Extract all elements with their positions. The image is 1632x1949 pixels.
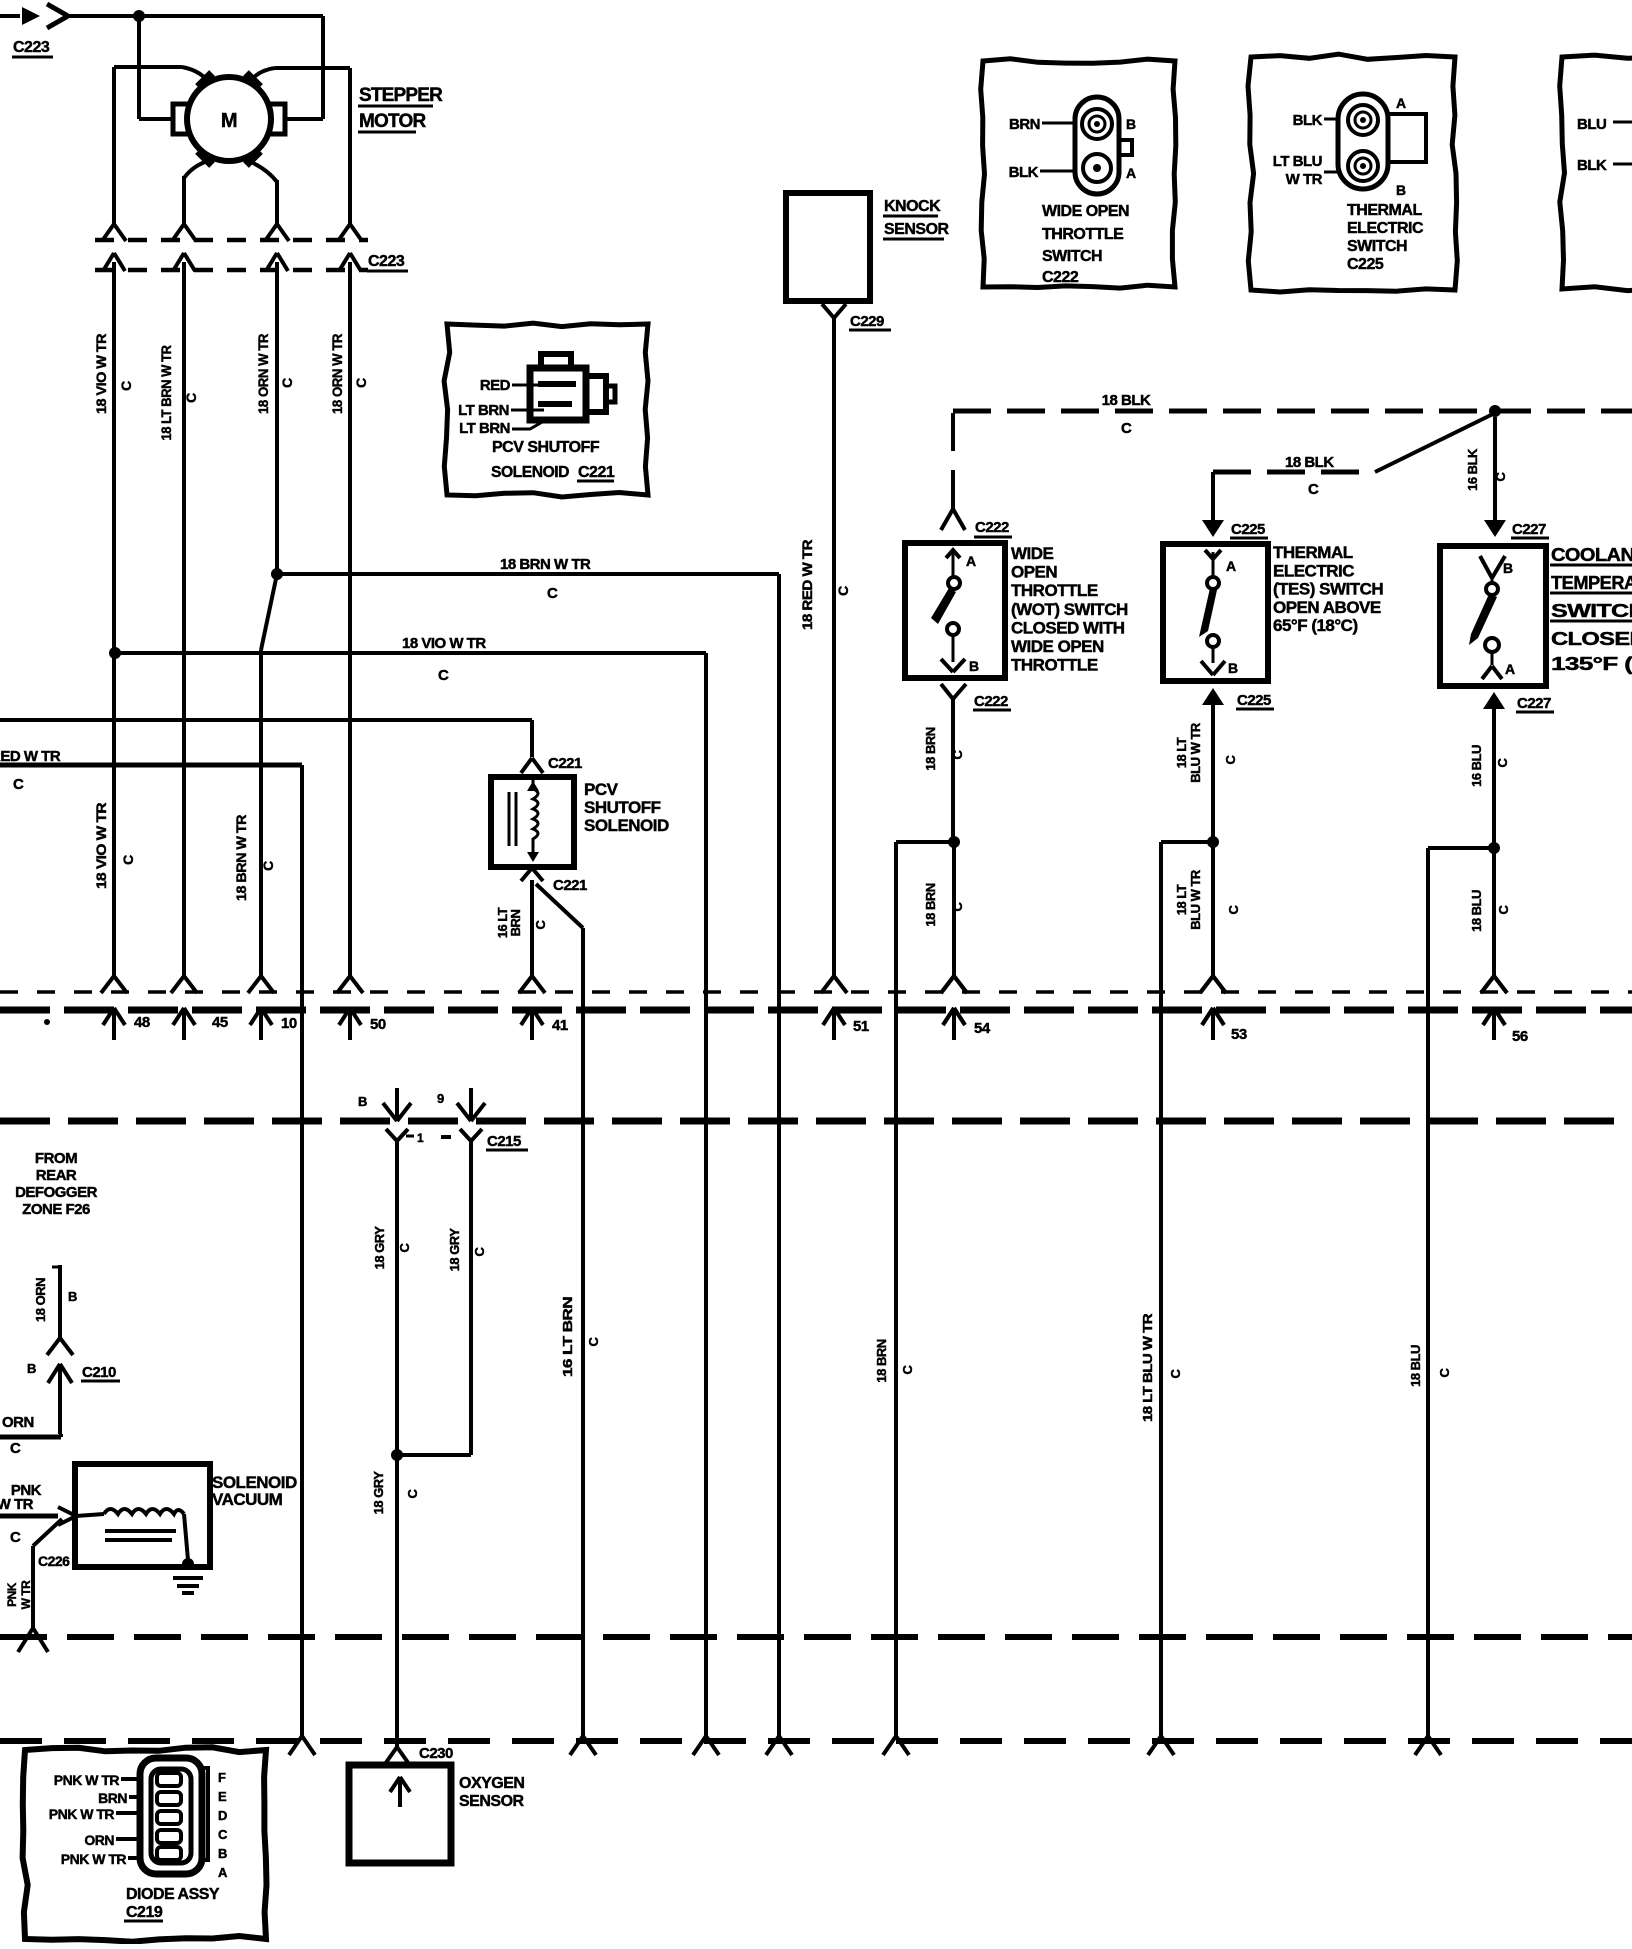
svg-text:CLOSED WITH: CLOSED WITH bbox=[1011, 618, 1125, 637]
svg-text:B: B bbox=[1396, 182, 1406, 198]
svg-text:C222: C222 bbox=[974, 693, 1008, 710]
svg-text:B: B bbox=[68, 1289, 77, 1304]
svg-text:C221: C221 bbox=[553, 877, 587, 894]
svg-text:STEPPER: STEPPER bbox=[359, 85, 443, 106]
svg-text:1: 1 bbox=[417, 1131, 424, 1145]
svg-text:A: A bbox=[1226, 558, 1236, 574]
svg-text:W TR: W TR bbox=[1286, 171, 1323, 188]
svg-text:C225: C225 bbox=[1347, 256, 1384, 273]
svg-text:16 BLU: 16 BLU bbox=[1469, 745, 1484, 787]
svg-text:THROTTLE: THROTTLE bbox=[1042, 226, 1124, 243]
svg-text:C: C bbox=[1226, 904, 1241, 914]
svg-text:SENSOR: SENSOR bbox=[884, 221, 950, 238]
svg-text:MOTOR: MOTOR bbox=[359, 111, 426, 132]
svg-text:C226: C226 bbox=[38, 1553, 70, 1569]
svg-text:BRN: BRN bbox=[1009, 116, 1040, 133]
svg-text:C: C bbox=[1496, 904, 1511, 914]
svg-text:PCV: PCV bbox=[584, 780, 619, 799]
svg-text:ZONE F26: ZONE F26 bbox=[22, 1201, 90, 1218]
svg-text:C: C bbox=[950, 749, 965, 759]
svg-text:LT BRN: LT BRN bbox=[459, 420, 510, 437]
svg-text:SENSOR: SENSOR bbox=[459, 1793, 525, 1810]
svg-text:RED W TR: RED W TR bbox=[0, 748, 61, 765]
svg-text:C: C bbox=[260, 861, 276, 871]
svg-text:18 ORN W TR: 18 ORN W TR bbox=[255, 334, 271, 414]
svg-text:BLK: BLK bbox=[1009, 164, 1039, 181]
svg-text:C: C bbox=[533, 919, 548, 929]
svg-text:50: 50 bbox=[370, 1016, 386, 1033]
svg-text:45: 45 bbox=[212, 1014, 228, 1031]
svg-text:C: C bbox=[13, 776, 24, 793]
svg-text:A: A bbox=[1396, 95, 1406, 111]
svg-text:BLU: BLU bbox=[1577, 116, 1606, 133]
svg-text:C: C bbox=[10, 1440, 21, 1457]
svg-text:C: C bbox=[183, 393, 199, 403]
svg-text:RED: RED bbox=[480, 377, 511, 394]
svg-text:C: C bbox=[1493, 471, 1508, 481]
svg-text:OPEN: OPEN bbox=[1011, 563, 1057, 582]
svg-text:B: B bbox=[969, 658, 979, 674]
svg-text:BLU W TR: BLU W TR bbox=[1188, 869, 1203, 930]
svg-text:16 BLK: 16 BLK bbox=[1465, 448, 1480, 491]
svg-text:C229: C229 bbox=[850, 313, 884, 330]
svg-text:10: 10 bbox=[281, 1015, 297, 1032]
svg-text:18 LT: 18 LT bbox=[1174, 884, 1189, 915]
svg-text:18 ORN: 18 ORN bbox=[33, 1278, 48, 1322]
svg-text:C: C bbox=[1168, 1368, 1183, 1378]
svg-text:B: B bbox=[27, 1361, 36, 1376]
svg-text:56: 56 bbox=[1512, 1028, 1528, 1045]
svg-text:18 BLU: 18 BLU bbox=[1469, 890, 1484, 932]
svg-text:18 BRN: 18 BRN bbox=[874, 1339, 889, 1382]
svg-text:DEFOGGER: DEFOGGER bbox=[15, 1184, 98, 1201]
svg-text:B: B bbox=[358, 1094, 367, 1109]
svg-text:C225: C225 bbox=[1231, 521, 1265, 538]
svg-text:W TR: W TR bbox=[0, 1496, 34, 1513]
svg-text:BLK: BLK bbox=[1293, 112, 1323, 129]
svg-text:18 BRN W TR: 18 BRN W TR bbox=[500, 556, 591, 573]
svg-text:A: A bbox=[1126, 165, 1136, 181]
svg-text:C: C bbox=[405, 1488, 420, 1498]
svg-text:51: 51 bbox=[853, 1018, 869, 1035]
svg-text:SHUTOFF: SHUTOFF bbox=[584, 798, 661, 817]
svg-text:SWITCH: SWITCH bbox=[1042, 248, 1102, 265]
svg-text:53: 53 bbox=[1231, 1026, 1247, 1043]
svg-text:THERMAL: THERMAL bbox=[1347, 202, 1422, 219]
svg-text:M: M bbox=[221, 110, 237, 132]
svg-text:BRN: BRN bbox=[508, 910, 523, 937]
svg-text:COOLANT: COOLANT bbox=[1551, 545, 1632, 565]
svg-text:C: C bbox=[438, 667, 449, 684]
svg-text:C230: C230 bbox=[419, 1745, 453, 1762]
svg-text:PCV SHUTOFF: PCV SHUTOFF bbox=[492, 439, 600, 456]
svg-text:E: E bbox=[218, 1789, 227, 1804]
svg-text:18 GRY: 18 GRY bbox=[371, 1471, 386, 1515]
svg-text:TEMPERAT: TEMPERAT bbox=[1551, 573, 1632, 593]
svg-text:(TES) SWITCH: (TES) SWITCH bbox=[1273, 580, 1383, 599]
svg-text:C: C bbox=[472, 1246, 487, 1256]
svg-text:16 LT BRN: 16 LT BRN bbox=[560, 1297, 575, 1377]
svg-text:C221: C221 bbox=[578, 464, 615, 481]
svg-text:C227: C227 bbox=[1512, 521, 1546, 538]
svg-text:A: A bbox=[218, 1865, 228, 1880]
svg-text:SWITCH: SWITCH bbox=[1347, 238, 1407, 255]
svg-text:18 GRY: 18 GRY bbox=[447, 1228, 462, 1272]
svg-text:18 BRN W TR: 18 BRN W TR bbox=[233, 815, 249, 901]
svg-text:C: C bbox=[397, 1242, 412, 1252]
svg-text:C: C bbox=[120, 855, 136, 865]
svg-text:W TR: W TR bbox=[19, 1580, 33, 1609]
svg-text:CLOSED: CLOSED bbox=[1551, 629, 1632, 649]
svg-text:65°F (18°C): 65°F (18°C) bbox=[1273, 616, 1358, 635]
svg-text:WIDE OPEN: WIDE OPEN bbox=[1011, 637, 1104, 656]
svg-text:C: C bbox=[1121, 420, 1132, 437]
svg-text:C: C bbox=[900, 1364, 915, 1374]
svg-text:THROTTLE: THROTTLE bbox=[1011, 581, 1098, 600]
svg-text:18 ORN W TR: 18 ORN W TR bbox=[329, 334, 345, 414]
svg-text:FROM: FROM bbox=[35, 1150, 77, 1167]
svg-text:WIDE OPEN: WIDE OPEN bbox=[1042, 203, 1129, 220]
svg-text:18 BRN: 18 BRN bbox=[923, 883, 938, 926]
svg-text:B: B bbox=[218, 1846, 227, 1861]
svg-text:18 GRY: 18 GRY bbox=[372, 1226, 387, 1270]
svg-text:F: F bbox=[218, 1770, 226, 1785]
svg-text:C: C bbox=[118, 381, 134, 391]
svg-text:SOLENOID: SOLENOID bbox=[584, 816, 669, 835]
svg-text:WIDE: WIDE bbox=[1011, 544, 1054, 563]
svg-text:C222: C222 bbox=[975, 519, 1009, 536]
svg-text:C: C bbox=[353, 378, 369, 388]
svg-text:C: C bbox=[1223, 754, 1238, 764]
svg-text:C: C bbox=[279, 378, 295, 388]
svg-text:135°F (5: 135°F (5 bbox=[1551, 654, 1632, 674]
svg-text:48: 48 bbox=[134, 1014, 150, 1031]
svg-text:C225: C225 bbox=[1237, 692, 1271, 709]
svg-text:18 BLU: 18 BLU bbox=[1408, 1345, 1423, 1387]
svg-text:54: 54 bbox=[974, 1020, 991, 1037]
svg-text:C: C bbox=[1308, 481, 1319, 498]
svg-text:C223: C223 bbox=[13, 39, 50, 56]
svg-text:18 VIO W TR: 18 VIO W TR bbox=[402, 635, 486, 652]
svg-text:18 BLK: 18 BLK bbox=[1285, 454, 1334, 471]
svg-text:PNK W TR: PNK W TR bbox=[49, 1806, 115, 1822]
svg-text:C: C bbox=[10, 1529, 21, 1546]
svg-text:18 LT BRN W TR: 18 LT BRN W TR bbox=[158, 345, 174, 440]
svg-text:C: C bbox=[835, 586, 851, 596]
svg-text:SWITCH: SWITCH bbox=[1551, 601, 1632, 621]
svg-text:BRN: BRN bbox=[98, 1790, 127, 1806]
svg-text:REAR: REAR bbox=[36, 1167, 77, 1184]
svg-text:KNOCK: KNOCK bbox=[884, 198, 941, 215]
svg-text:C227: C227 bbox=[1517, 695, 1551, 712]
svg-text:C223: C223 bbox=[368, 253, 405, 270]
svg-text:18 BRN: 18 BRN bbox=[923, 727, 938, 770]
svg-text:(WOT) SWITCH: (WOT) SWITCH bbox=[1011, 600, 1128, 619]
svg-text:LT BRN: LT BRN bbox=[458, 402, 509, 419]
svg-text:C221: C221 bbox=[548, 755, 582, 772]
svg-text:C: C bbox=[1495, 757, 1510, 767]
svg-text:18 BLK: 18 BLK bbox=[1102, 392, 1151, 409]
svg-text:SOLENOID: SOLENOID bbox=[491, 464, 569, 481]
svg-text:BLU W TR: BLU W TR bbox=[1188, 722, 1203, 783]
svg-text:41: 41 bbox=[552, 1017, 568, 1034]
svg-text:PNK W TR: PNK W TR bbox=[54, 1772, 120, 1788]
svg-text:18 VIO W TR: 18 VIO W TR bbox=[93, 803, 109, 889]
svg-text:LT BLU: LT BLU bbox=[1273, 153, 1322, 170]
svg-text:18 RED W TR: 18 RED W TR bbox=[799, 540, 815, 630]
svg-text:BLK: BLK bbox=[1577, 157, 1607, 174]
svg-text:ORN: ORN bbox=[84, 1832, 114, 1848]
svg-text:PNK W TR: PNK W TR bbox=[61, 1851, 127, 1867]
svg-text:B: B bbox=[1126, 116, 1136, 132]
svg-text:C215: C215 bbox=[487, 1133, 521, 1150]
svg-text:C: C bbox=[586, 1336, 601, 1346]
svg-text:A: A bbox=[1505, 661, 1515, 677]
svg-text:VACUUM: VACUUM bbox=[212, 1490, 283, 1509]
svg-text:18 VIO W TR: 18 VIO W TR bbox=[93, 334, 109, 414]
svg-text:THROTTLE: THROTTLE bbox=[1011, 656, 1098, 675]
svg-text:18 LT BLU W TR: 18 LT BLU W TR bbox=[1140, 1313, 1155, 1422]
svg-text:B: B bbox=[1228, 660, 1238, 676]
svg-text:ELECTRIC: ELECTRIC bbox=[1347, 220, 1424, 237]
svg-text:A: A bbox=[966, 553, 976, 569]
svg-text:C222: C222 bbox=[1042, 269, 1079, 286]
svg-text:B: B bbox=[1503, 560, 1513, 576]
svg-text:18 LT: 18 LT bbox=[1174, 737, 1189, 768]
svg-text:OXYGEN: OXYGEN bbox=[459, 1775, 524, 1792]
svg-text:C: C bbox=[218, 1827, 228, 1842]
svg-text:PNK: PNK bbox=[5, 1582, 19, 1607]
svg-text:9: 9 bbox=[437, 1091, 444, 1106]
svg-text:OPEN ABOVE: OPEN ABOVE bbox=[1273, 598, 1381, 617]
svg-text:D: D bbox=[218, 1808, 227, 1823]
svg-text:THERMAL: THERMAL bbox=[1273, 543, 1353, 562]
svg-text:DIODE ASSY: DIODE ASSY bbox=[126, 1886, 220, 1903]
svg-text:C219: C219 bbox=[126, 1904, 163, 1921]
svg-text:C: C bbox=[1437, 1367, 1452, 1377]
svg-text:ORN: ORN bbox=[2, 1414, 34, 1431]
svg-text:C: C bbox=[547, 585, 558, 602]
svg-text:C210: C210 bbox=[82, 1364, 116, 1381]
svg-text:ELECTRIC: ELECTRIC bbox=[1273, 561, 1354, 580]
